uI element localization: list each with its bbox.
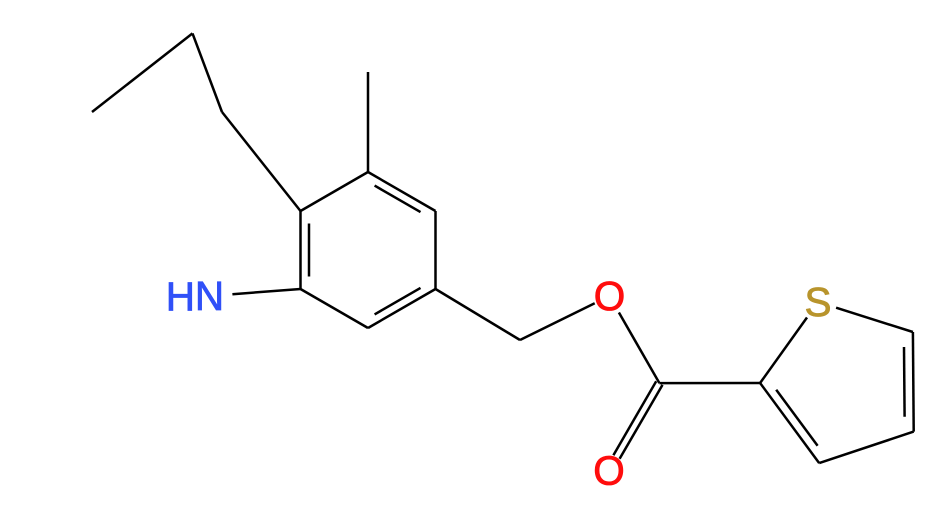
svg-text:O: O bbox=[594, 273, 626, 319]
bond chain to ring C (faint leg) bbox=[222, 112, 301, 211]
C=O double line bbox=[613, 381, 656, 455]
bond CH2-O bbox=[520, 303, 595, 340]
bond chain (right leg) bbox=[193, 33, 223, 112]
ring1 double inner bbox=[308, 224, 311, 277]
thio double inner bbox=[776, 390, 817, 446]
thio double inner bbox=[903, 347, 906, 417]
methyl on ring top bbox=[367, 72, 370, 172]
bond thio C2-S bbox=[760, 318, 807, 384]
bond thio C3-C2 bbox=[760, 383, 819, 463]
bond thio C4-C3 bbox=[819, 432, 914, 464]
ring1 edge SW-NW bbox=[299, 211, 302, 289]
ring1 edge T-NE bbox=[368, 172, 436, 211]
bond thio C5-C4 bbox=[912, 332, 915, 432]
ring1 edge B-SW bbox=[301, 289, 369, 328]
bond thio S-C5 bbox=[836, 308, 913, 332]
ring1 edge SE-B bbox=[368, 289, 436, 328]
bond N-ring bbox=[232, 289, 300, 294]
ring1 edge NW-T bbox=[301, 172, 369, 211]
svg-text:H: H bbox=[166, 273, 195, 319]
svg-text:O: O bbox=[593, 447, 625, 493]
ring1 double inner bbox=[375, 186, 421, 213]
bond ring-CH2 bbox=[436, 289, 521, 340]
ring1 double inner bbox=[375, 288, 421, 315]
ring1 edge NE-SE bbox=[434, 211, 437, 289]
bond C-thiophene bbox=[659, 382, 760, 385]
bond CH3-CH2 (left leg) bbox=[92, 33, 193, 112]
svg-text:N: N bbox=[195, 273, 224, 319]
bond O-C carbonyl bbox=[619, 313, 660, 384]
svg-text:S: S bbox=[804, 279, 831, 325]
C=O double line bbox=[620, 385, 663, 459]
